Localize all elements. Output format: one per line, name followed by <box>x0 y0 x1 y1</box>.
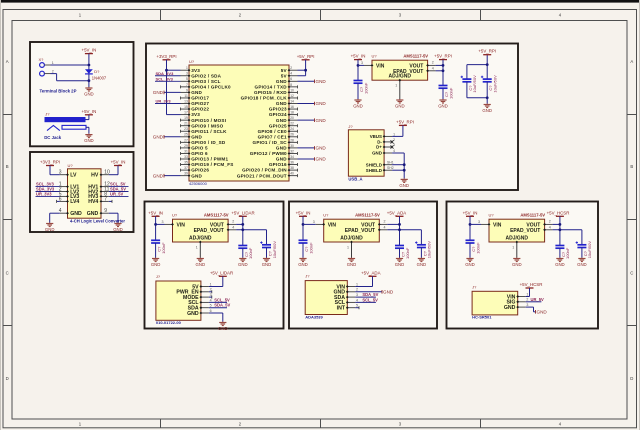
svg-text:27: 27 <box>184 138 188 142</box>
svg-text:HV: HV <box>91 173 99 179</box>
svg-text:+5V_LIDAR: +5V_LIDAR <box>231 210 254 215</box>
svg-text:42506000: 42506000 <box>189 181 208 186</box>
svg-text:010-01722-00: 010-01722-00 <box>156 320 182 325</box>
svg-text:+5V_IN: +5V_IN <box>148 210 163 215</box>
svg-text:GND: GND <box>316 157 327 162</box>
svg-text:U?: U? <box>68 163 74 168</box>
svg-text:1: 1 <box>395 84 397 88</box>
svg-text:GND: GND <box>276 101 287 106</box>
svg-text:D: D <box>630 376 633 381</box>
svg-text:28: 28 <box>290 138 294 142</box>
svg-text:AMS1117-5V: AMS1117-5V <box>403 54 428 59</box>
svg-text:GND: GND <box>238 262 248 267</box>
svg-text:11: 11 <box>184 94 188 98</box>
svg-text:SCL_5V: SCL_5V <box>214 297 230 302</box>
svg-text:GND: GND <box>347 262 357 267</box>
svg-text:GPIO16: GPIO16 <box>269 162 287 167</box>
svg-text:3V3: 3V3 <box>191 112 200 117</box>
svg-text:10uF/50V: 10uF/50V <box>493 75 498 93</box>
svg-text:GND: GND <box>577 262 587 267</box>
svg-text:SHIELD: SHIELD <box>366 168 382 173</box>
svg-text:GND: GND <box>298 262 308 267</box>
svg-text:3: 3 <box>393 143 395 147</box>
svg-text:3: 3 <box>361 61 363 65</box>
svg-text:B: B <box>6 164 9 169</box>
svg-text:GPIO18 / PCM_CLK: GPIO18 / PCM_CLK <box>241 96 288 101</box>
svg-text:GND: GND <box>316 118 327 123</box>
svg-text:15: 15 <box>184 105 188 109</box>
svg-text:SDA_3V3: SDA_3V3 <box>156 71 175 76</box>
svg-text:VIN: VIN <box>328 223 337 229</box>
svg-text:12: 12 <box>290 94 294 98</box>
svg-text:3: 3 <box>210 293 212 297</box>
svg-text:2: 2 <box>549 220 551 224</box>
svg-text:ADJ/GND: ADJ/GND <box>506 235 529 241</box>
svg-text:1: 1 <box>186 66 188 70</box>
svg-text:4: 4 <box>432 67 434 71</box>
svg-text:39: 39 <box>184 172 188 176</box>
svg-text:GND: GND <box>353 104 363 109</box>
svg-text:GND: GND <box>465 262 475 267</box>
svg-text:100nF: 100nF <box>161 242 166 254</box>
svg-text:19: 19 <box>184 116 188 120</box>
svg-text:17: 17 <box>184 111 188 115</box>
svg-text:+3V3_RPI: +3V3_RPI <box>156 54 176 59</box>
svg-text:GPIO25: GPIO25 <box>269 123 287 128</box>
svg-text:36: 36 <box>290 160 294 164</box>
svg-text:GND: GND <box>45 227 55 232</box>
svg-text:23: 23 <box>184 127 188 131</box>
svg-text:UR_5V: UR_5V <box>531 297 544 302</box>
svg-text:7: 7 <box>104 196 107 202</box>
svg-text:GPIO 6: GPIO 6 <box>191 151 208 156</box>
svg-text:+5V_RPI: +5V_RPI <box>396 119 414 124</box>
svg-text:U?: U? <box>489 213 495 218</box>
svg-text:2: 2 <box>393 138 395 142</box>
svg-text:SH1: SH1 <box>387 161 394 165</box>
svg-text:GND: GND <box>87 211 99 217</box>
svg-text:GND: GND <box>187 311 199 317</box>
svg-text:GND: GND <box>383 290 394 295</box>
svg-text:10: 10 <box>290 88 294 92</box>
svg-text:C: C <box>6 270 9 275</box>
svg-text:GND: GND <box>537 310 548 315</box>
svg-text:GPIO 5: GPIO 5 <box>191 146 208 151</box>
svg-text:+5V_HCSR: +5V_HCSR <box>520 282 543 287</box>
svg-text:7: 7 <box>186 83 188 87</box>
svg-text:U?: U? <box>323 213 329 218</box>
svg-text:GND: GND <box>191 90 202 95</box>
svg-text:100nF: 100nF <box>363 82 368 94</box>
svg-text:X?: X? <box>39 57 45 62</box>
svg-text:GND: GND <box>276 157 287 162</box>
svg-text:35: 35 <box>184 160 188 164</box>
svg-text:UR_3V3: UR_3V3 <box>36 192 52 197</box>
svg-text:GPIO24: GPIO24 <box>269 112 287 117</box>
svg-text:22: 22 <box>290 122 294 126</box>
svg-text:1: 1 <box>526 292 528 296</box>
svg-text:18: 18 <box>290 111 294 115</box>
svg-text:GPIO20 / PCM_DIN: GPIO20 / PCM_DIN <box>242 168 287 173</box>
svg-text:1: 1 <box>210 282 212 286</box>
svg-text:GPIO12 / PWM0: GPIO12 / PWM0 <box>250 151 287 156</box>
svg-text:EPAD_VOUT: EPAD_VOUT <box>510 228 540 234</box>
svg-text:Terminal Block 2P: Terminal Block 2P <box>40 88 77 93</box>
svg-text:GND: GND <box>399 183 409 188</box>
svg-text:C: C <box>630 270 633 275</box>
svg-text:GND: GND <box>262 262 272 267</box>
svg-text:2: 2 <box>356 288 358 292</box>
svg-text:14: 14 <box>290 99 294 103</box>
svg-text:+5V_RPI: +5V_RPI <box>434 54 452 59</box>
svg-text:20: 20 <box>290 116 294 120</box>
svg-text:GPIO9 / MISO: GPIO9 / MISO <box>191 123 223 128</box>
svg-text:GPIO1 / ID_SC: GPIO1 / ID_SC <box>253 140 288 145</box>
svg-text:26: 26 <box>290 133 294 137</box>
svg-text:+3V3_RPI: +3V3_RPI <box>40 160 60 165</box>
svg-text:4-CH Logic Level Converter: 4-CH Logic Level Converter <box>70 219 125 224</box>
svg-text:D: D <box>6 376 9 381</box>
svg-text:GND: GND <box>316 146 327 151</box>
svg-text:+5V_ADA: +5V_ADA <box>361 270 380 275</box>
svg-text:+5V_RPI: +5V_RPI <box>297 54 315 59</box>
svg-text:VBUS: VBUS <box>370 134 382 139</box>
svg-text:GPIO26: GPIO26 <box>191 168 209 173</box>
svg-text:U?: U? <box>189 59 195 64</box>
svg-text:GPIO21 / PCM_DOUT: GPIO21 / PCM_DOUT <box>237 173 287 178</box>
svg-text:GND: GND <box>438 104 448 109</box>
svg-text:10uF/50V: 10uF/50V <box>427 241 432 259</box>
svg-text:EPAD_VOUT: EPAD_VOUT <box>194 228 224 234</box>
svg-text:9: 9 <box>186 88 188 92</box>
svg-text:AMS1117-5V: AMS1117-5V <box>355 213 380 218</box>
svg-text:+5V_IN: +5V_IN <box>82 48 97 53</box>
svg-text:100nF: 100nF <box>308 242 313 254</box>
svg-text:GPIO17: GPIO17 <box>191 96 209 101</box>
svg-text:3: 3 <box>186 72 188 76</box>
svg-text:ADJ/GND: ADJ/GND <box>340 235 363 241</box>
svg-text:+5V_IN: +5V_IN <box>463 210 478 215</box>
svg-text:5: 5 <box>186 77 188 81</box>
svg-text:GPIO23: GPIO23 <box>269 107 287 112</box>
svg-text:3: 3 <box>162 220 164 224</box>
svg-text:6: 6 <box>290 77 292 81</box>
svg-text:HC-SR501: HC-SR501 <box>472 315 492 320</box>
svg-text:2: 2 <box>210 288 212 292</box>
svg-text:GND: GND <box>555 262 565 267</box>
svg-text:3: 3 <box>526 303 528 307</box>
svg-text:GND: GND <box>417 262 427 267</box>
svg-text:+5V_LIDAR: +5V_LIDAR <box>210 270 233 275</box>
svg-text:1: 1 <box>52 61 54 65</box>
svg-text:34: 34 <box>290 155 294 159</box>
svg-text:30: 30 <box>290 144 294 148</box>
svg-text:2: 2 <box>432 61 434 65</box>
svg-text:9: 9 <box>104 208 107 214</box>
svg-text:SCL_3V3: SCL_3V3 <box>156 76 174 81</box>
svg-text:GND: GND <box>153 173 164 178</box>
svg-text:31: 31 <box>184 149 188 153</box>
svg-text:GND: GND <box>113 227 123 232</box>
svg-text:4: 4 <box>210 298 212 302</box>
svg-text:21: 21 <box>184 122 188 126</box>
svg-text:+5V_HCSR: +5V_HCSR <box>547 210 570 215</box>
svg-text:2: 2 <box>384 220 386 224</box>
svg-text:GND: GND <box>191 134 202 139</box>
svg-text:INT: INT <box>337 306 346 312</box>
svg-text:+5V_IN: +5V_IN <box>82 109 97 114</box>
svg-text:GPIO13 / PWM1: GPIO13 / PWM1 <box>191 157 228 162</box>
svg-text:ADJ/GND: ADJ/GND <box>389 74 412 80</box>
svg-text:1: 1 <box>512 246 514 250</box>
svg-text:UR_5V: UR_5V <box>110 191 123 196</box>
svg-text:2: 2 <box>232 220 234 224</box>
svg-text:EPAD_VOUT: EPAD_VOUT <box>345 228 375 234</box>
svg-text:100nF: 100nF <box>448 87 453 99</box>
svg-text:5V: 5V <box>281 68 288 73</box>
svg-text:5V: 5V <box>281 73 288 78</box>
svg-text:GPIO3 / SCL: GPIO3 / SCL <box>191 79 220 84</box>
svg-text:2: 2 <box>52 69 54 73</box>
svg-text:GPIO10 / MOSI: GPIO10 / MOSI <box>191 118 226 123</box>
svg-text:100nF: 100nF <box>475 242 480 254</box>
svg-text:D+: D+ <box>376 145 382 150</box>
svg-text:8: 8 <box>290 83 292 87</box>
svg-text:GND: GND <box>84 92 94 97</box>
svg-text:SDA_5V: SDA_5V <box>214 303 230 308</box>
svg-text:GND: GND <box>504 305 516 311</box>
svg-text:GND: GND <box>196 262 206 267</box>
svg-text:33: 33 <box>184 155 188 159</box>
svg-text:+5V_IN: +5V_IN <box>111 160 126 165</box>
svg-text:+5V_IN: +5V_IN <box>296 210 311 215</box>
svg-text:GND: GND <box>372 151 382 156</box>
svg-text:UR_3V3: UR_3V3 <box>156 99 172 104</box>
svg-text:VIN: VIN <box>177 223 186 229</box>
svg-text:GND: GND <box>191 173 202 178</box>
svg-text:GND: GND <box>276 146 287 151</box>
svg-text:VIN: VIN <box>493 223 502 229</box>
svg-text:16: 16 <box>290 105 294 109</box>
svg-text:5: 5 <box>356 304 358 308</box>
svg-text:+5V_IN: +5V_IN <box>351 54 366 59</box>
svg-text:100nF: 100nF <box>248 247 253 259</box>
svg-text:ADJ/GND: ADJ/GND <box>189 235 212 241</box>
svg-text:A: A <box>6 59 9 64</box>
svg-text:GPIO27: GPIO27 <box>191 101 209 106</box>
svg-text:6: 6 <box>210 309 212 313</box>
svg-text:SCL_5V: SCL_5V <box>362 297 378 302</box>
svg-text:U?: U? <box>372 54 378 59</box>
svg-text:HV4: HV4 <box>88 199 98 205</box>
svg-text:AMS1117-5V: AMS1117-5V <box>204 213 229 218</box>
svg-text:40: 40 <box>290 172 294 176</box>
svg-text:3V3: 3V3 <box>191 68 200 73</box>
svg-text:4: 4 <box>356 298 358 302</box>
svg-text:GND: GND <box>316 101 327 106</box>
svg-text:4: 4 <box>384 226 386 230</box>
svg-text:10uF/50V: 10uF/50V <box>587 241 592 259</box>
svg-text:32: 32 <box>290 149 294 153</box>
svg-text:2: 2 <box>526 298 528 302</box>
svg-text:10uF/50V: 10uF/50V <box>272 241 277 259</box>
svg-text:D?: D? <box>94 69 100 74</box>
svg-text:GND: GND <box>276 79 287 84</box>
svg-text:A: A <box>630 59 633 64</box>
svg-text:GND: GND <box>153 135 164 140</box>
svg-text:GND: GND <box>151 262 161 267</box>
svg-text:GND: GND <box>276 118 287 123</box>
svg-text:GND: GND <box>153 90 164 95</box>
svg-text:GPIO22: GPIO22 <box>191 107 209 112</box>
svg-text:13: 13 <box>184 99 188 103</box>
svg-text:GND: GND <box>482 108 492 113</box>
svg-text:3: 3 <box>478 220 480 224</box>
svg-text:4: 4 <box>290 72 292 76</box>
svg-text:GND: GND <box>84 138 94 143</box>
svg-text:1N4007: 1N4007 <box>92 76 107 81</box>
svg-text:GPIO0 / ID_SD: GPIO0 / ID_SD <box>191 140 226 145</box>
svg-text:GPIO4 / GPCLK0: GPIO4 / GPCLK0 <box>191 84 231 89</box>
svg-text:5: 5 <box>210 304 212 308</box>
svg-text:2: 2 <box>290 66 292 70</box>
svg-text:37: 37 <box>184 166 188 170</box>
svg-text:25: 25 <box>184 133 188 137</box>
svg-text:SHIELD: SHIELD <box>366 162 382 167</box>
svg-text:1: 1 <box>356 282 358 286</box>
svg-text:LV4: LV4 <box>70 199 79 205</box>
svg-text:1: 1 <box>347 246 349 250</box>
svg-text:GPIO14 / TXD: GPIO14 / TXD <box>255 84 288 89</box>
svg-text:100nF: 100nF <box>565 247 570 259</box>
svg-text:GPIO2 / SDA: GPIO2 / SDA <box>191 73 221 78</box>
svg-text:3: 3 <box>356 293 358 297</box>
svg-text:3: 3 <box>313 220 315 224</box>
svg-text:DC Jack: DC Jack <box>44 135 62 140</box>
svg-text:GPIO8 / CE0: GPIO8 / CE0 <box>258 129 287 134</box>
svg-text:1: 1 <box>196 246 198 250</box>
svg-text:29: 29 <box>184 144 188 148</box>
svg-text:SDA_5V: SDA_5V <box>362 292 378 297</box>
svg-text:GND: GND <box>218 326 228 331</box>
svg-text:B: B <box>630 164 633 169</box>
svg-text:GND: GND <box>395 262 405 267</box>
svg-text:24: 24 <box>290 127 294 131</box>
svg-text:4: 4 <box>549 226 551 230</box>
svg-text:GPIO19 / PCM_FS: GPIO19 / PCM_FS <box>191 162 233 167</box>
svg-text:AMS1117-5V: AMS1117-5V <box>520 213 545 218</box>
svg-text:GND: GND <box>395 104 405 109</box>
svg-text:ADA3539: ADA3539 <box>305 314 323 319</box>
svg-text:SH2: SH2 <box>387 166 394 170</box>
svg-text:GND: GND <box>316 79 327 84</box>
svg-text:GPIO11 / SCLK: GPIO11 / SCLK <box>191 129 227 134</box>
svg-text:GPIO15 / RXD: GPIO15 / RXD <box>254 90 287 95</box>
svg-text:100nF: 100nF <box>405 247 410 259</box>
svg-text:38: 38 <box>290 166 294 170</box>
svg-text:10uF/50V: 10uF/50V <box>472 75 477 93</box>
svg-text:+5V_ADA: +5V_ADA <box>387 210 406 215</box>
svg-text:GND: GND <box>70 211 82 217</box>
svg-text:4: 4 <box>232 226 234 230</box>
svg-text:VIN: VIN <box>376 64 385 70</box>
svg-text:+5V_RPI: +5V_RPI <box>478 49 496 54</box>
svg-text:GND: GND <box>512 262 522 267</box>
svg-text:USB_A: USB_A <box>348 177 362 182</box>
svg-text:LV: LV <box>70 173 77 179</box>
svg-text:GPIO7 / CE1: GPIO7 / CE1 <box>258 134 287 139</box>
svg-text:U?: U? <box>172 213 178 218</box>
